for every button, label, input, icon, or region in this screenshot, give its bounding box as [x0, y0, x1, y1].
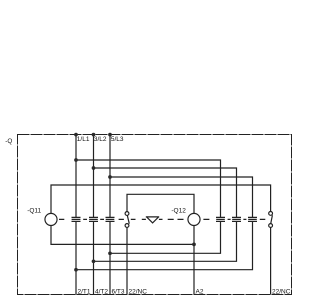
contact Q12 pole3	[248, 217, 257, 221]
wire crossover Q12 pole2 to T2	[94, 221, 237, 261]
aux contact NC right blade	[271, 215, 273, 224]
wire phase L2 upper	[93, 135, 95, 218]
node L1 top junction	[74, 133, 78, 137]
aux contact NC left terminals	[125, 212, 129, 216]
wire branch L2 to Q12 pole2	[94, 168, 237, 217]
svg-text:22/NC: 22/NC	[272, 288, 291, 295]
wire Q11 coil A1 to Q12 aux contact	[51, 185, 271, 213]
wire aux right lower to 22/NC	[270, 227, 272, 294]
svg-text:22/NC: 22/NC	[129, 288, 148, 295]
node T2 crossover junction	[92, 259, 96, 263]
node L3 branch junction	[108, 175, 112, 179]
wire Q12 coil A1 to Q11 aux contact	[127, 194, 194, 213]
node T3 crossover junction	[108, 251, 112, 255]
wire coil A2 rail	[51, 225, 194, 294]
svg-text:A2: A2	[196, 288, 204, 295]
mechanical interlock triangle	[146, 217, 159, 223]
coil -Q11	[45, 213, 57, 225]
node L1 branch junction	[74, 158, 78, 162]
svg-text:-Q: -Q	[5, 138, 12, 145]
mechanical linkage dashed line	[59, 218, 265, 220]
aux contact NC left blade	[127, 215, 129, 223]
svg-text:3/L2: 3/L2	[94, 136, 107, 143]
node T1 crossover junction	[74, 268, 78, 272]
enclosure dashed box -Q	[18, 135, 292, 295]
wire T3 lower	[109, 221, 111, 294]
wire crossover Q12 pole3 to T1	[76, 221, 253, 269]
wire crossover Q12 pole1 to T3	[110, 221, 221, 253]
coil -Q12	[188, 213, 200, 225]
aux contact NC right terminals	[269, 212, 273, 216]
svg-text:1/L1: 1/L1	[77, 136, 90, 143]
wire T1 lower	[75, 221, 77, 294]
node L2 branch junction	[92, 166, 96, 170]
contact Q11 pole1	[72, 217, 81, 221]
svg-text:4/T2: 4/T2	[95, 288, 108, 295]
svg-text:-Q12: -Q12	[171, 208, 186, 215]
wire phase L3 upper	[109, 135, 111, 218]
contact Q11 pole2	[89, 217, 98, 221]
contact Q12 pole2	[232, 217, 241, 221]
node L3 top junction	[108, 133, 112, 137]
wire aux left lower to 22/NC	[126, 227, 128, 294]
svg-text:2/T1: 2/T1	[78, 288, 91, 295]
contact Q11 pole3	[106, 217, 115, 221]
node A2 junction	[192, 243, 196, 247]
node L2 top junction	[92, 133, 96, 137]
wire phase L1 upper	[75, 135, 77, 218]
svg-text:6/T3: 6/T3	[112, 288, 125, 295]
wire T2 lower	[93, 221, 95, 294]
svg-text:-Q11: -Q11	[27, 208, 41, 215]
contact Q12 pole1	[216, 217, 225, 221]
svg-text:5/L3: 5/L3	[111, 136, 124, 143]
wire branch L1 to Q12 pole1	[76, 160, 221, 217]
wire branch L3 to Q12 pole3	[110, 177, 253, 217]
